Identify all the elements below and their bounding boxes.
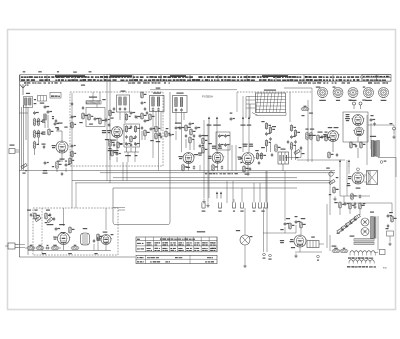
wire verticals under IF2 (153, 112, 161, 171)
capacitor C2 (44, 105, 50, 109)
wire vertical (227, 181, 233, 203)
capacitor C26 (218, 143, 224, 147)
wire (340, 160, 392, 212)
resistor R14 (125, 125, 131, 133)
capacitor C27 (224, 143, 229, 147)
wire (186, 139, 194, 150)
wire (333, 252, 378, 254)
labels mains (280, 240, 284, 243)
title FX355A (202, 94, 213, 98)
bus wire 1 (19, 170, 335, 172)
fuse box (380, 250, 386, 255)
wire (237, 92, 249, 152)
ballast dropper (370, 212, 376, 239)
resistor R3 (33, 130, 39, 139)
parts under UL41 (351, 193, 361, 201)
parts below B4 (212, 164, 223, 172)
ground (243, 264, 246, 268)
caps pair (175, 123, 185, 131)
wire (28, 245, 111, 251)
wire osc bottom (124, 147, 139, 152)
arrow into B5 (241, 158, 244, 164)
resistors right of B5 (256, 152, 266, 165)
capacitor C28 (271, 153, 273, 157)
capacitor C3 (47, 110, 52, 114)
labels (47, 224, 65, 225)
wire (128, 152, 135, 162)
wire (285, 148, 301, 158)
valve B9 triode (53, 233, 70, 245)
component frame (124, 124, 140, 147)
wire (176, 113, 184, 153)
wire (57, 168, 66, 172)
wire (45, 115, 48, 128)
resistor R11 (109, 139, 115, 148)
IF transformer S7 S8 (150, 93, 165, 112)
parts row (165, 128, 174, 138)
wire vertical x330 (327, 173, 330, 251)
trimmer C14 (135, 115, 141, 119)
tube base diagram 4 (364, 88, 374, 102)
labels left B7 (345, 114, 350, 121)
IF coil S3 (86, 97, 106, 105)
wire hline y90 (150, 88, 237, 90)
valve B2 UCH41 (107, 127, 124, 138)
junction (25, 170, 26, 171)
resistor R4 (37, 130, 42, 139)
jack 3 (232, 202, 235, 211)
trimmer C20 (134, 142, 140, 146)
wire grid cap (56, 131, 62, 141)
wire (292, 145, 296, 160)
aerial coil S1 (24, 93, 37, 108)
caps right (370, 115, 376, 126)
top parts (334, 201, 365, 210)
valve B8 UL41 (348, 172, 365, 184)
labels bottom box (42, 253, 98, 254)
top cap UL41 (357, 168, 360, 171)
wire (368, 125, 394, 127)
left frame wire (18, 75, 20, 257)
capacitor C24 (218, 134, 224, 138)
antenna (20, 84, 28, 95)
labels above B1 (55, 123, 67, 129)
wire (244, 208, 246, 235)
pickup connector (236, 230, 253, 245)
svg-text:FX355A: FX355A (202, 94, 213, 98)
bottom rail (19, 256, 135, 258)
below B1 parts (52, 161, 67, 177)
labels above B4 (212, 146, 222, 149)
wire (340, 166, 349, 196)
tube base diagram 3 (348, 88, 358, 102)
valve B7b (353, 127, 365, 136)
ground (202, 199, 205, 203)
oscillator coil S5 S6 (117, 91, 130, 113)
cluster mid (150, 132, 162, 142)
up arrow pair 2 (240, 116, 251, 125)
labels above B5 (239, 144, 259, 152)
terminal b (268, 254, 271, 260)
socket extra marks (316, 87, 365, 88)
switch box A (38, 96, 47, 104)
left parts S3 (79, 106, 87, 123)
valve B4 UAF42 (208, 152, 224, 163)
caps grid box (216, 132, 230, 150)
wire (282, 164, 284, 171)
frame under S3 (86, 108, 105, 127)
wire (234, 171, 266, 202)
resistor (97, 233, 103, 241)
dashed shield box (70, 92, 163, 166)
capacitor C4 (54, 122, 59, 126)
wire (209, 124, 217, 199)
switch box B (50, 93, 61, 99)
parts right of frame (109, 107, 115, 119)
loudspeaker (367, 171, 378, 185)
label 318 (81, 85, 85, 86)
capacitor C7 (65, 163, 70, 167)
capacitor C6 (52, 116, 57, 123)
jack 6 (258, 202, 261, 208)
wire verticals mid (228, 145, 236, 171)
wire (199, 165, 201, 171)
ground (206, 203, 209, 207)
upper left parts (27, 210, 41, 222)
label (43, 170, 47, 171)
wire (217, 163, 219, 171)
wire (35, 138, 39, 155)
dashed box gram (33, 208, 118, 255)
parts chain x267 (261, 121, 276, 148)
resistor R16 (130, 135, 136, 143)
label B2 (110, 140, 116, 141)
parts col x72 (71, 102, 77, 158)
wire (110, 147, 117, 162)
jack 4 (240, 202, 243, 211)
resistor R5 (33, 141, 39, 150)
upper small parts (301, 106, 313, 117)
capacitor (55, 227, 60, 231)
top cap b (359, 100, 366, 110)
valve B5 UBC41 (238, 153, 256, 165)
valve B10 triode (97, 235, 113, 245)
wire vertical x204 x208 (204, 120, 208, 203)
parts below B5 (243, 165, 251, 175)
pilot lamp 2 (361, 228, 369, 236)
left col parts (326, 168, 338, 201)
resistor R13 (125, 113, 130, 121)
wire (295, 244, 324, 252)
up arrows jacks (216, 191, 222, 198)
coil S2 (44, 114, 46, 120)
wire (246, 97, 250, 119)
parts x292 (287, 124, 300, 150)
resistor (69, 226, 75, 234)
wire verticals x308 x312 (308, 88, 312, 162)
wire (18, 245, 25, 248)
jack 1 (202, 202, 206, 211)
label bottom (22, 173, 47, 174)
capacitor C19 (130, 143, 132, 147)
capacitor C13 (130, 111, 136, 115)
terminal a (263, 253, 266, 259)
wire (340, 208, 360, 215)
wire (364, 175, 367, 182)
wire vertical (289, 92, 291, 122)
slant resistor R9 (21, 164, 27, 169)
capacitor C5 (57, 127, 59, 131)
wire (357, 137, 359, 158)
earth connector (9, 145, 19, 154)
wire (367, 115, 371, 165)
parts below B7 (350, 141, 366, 149)
resistor R1 (33, 118, 39, 127)
parts x316-328 (317, 132, 331, 142)
label B12 (291, 247, 295, 248)
wire out top (64, 208, 107, 230)
wire (247, 165, 249, 177)
resistor R18 (275, 144, 281, 153)
far right parts (390, 123, 396, 139)
capacitor (93, 239, 95, 243)
valve B7a (351, 115, 365, 126)
wire vertical x267 (264, 171, 286, 252)
small part right (380, 161, 386, 164)
wire (378, 158, 396, 178)
wire vertical (27, 168, 29, 255)
bus wire 5 (75, 182, 330, 184)
wire (285, 225, 301, 235)
wire (27, 107, 29, 255)
marks above band (23, 71, 92, 73)
capacitor C15 (130, 125, 132, 129)
resistor R6 (48, 128, 54, 136)
capacitor extra (43, 145, 45, 149)
capacitor C22 (193, 165, 195, 169)
dial resistor ladder (337, 214, 361, 233)
label B10 (103, 232, 114, 236)
wire (72, 93, 76, 208)
trimmer C18 (125, 142, 130, 146)
labels (125, 155, 137, 156)
dropper resistor (307, 237, 319, 248)
header parts-list band (20, 75, 391, 82)
ground (353, 205, 356, 209)
wave band switch SK1 (246, 90, 286, 116)
parts under IF2 (146, 111, 161, 136)
electrolytic block C29 C30 (278, 149, 289, 165)
capacitor C1 (33, 111, 39, 115)
plug P1 (5, 243, 18, 249)
wire (263, 232, 296, 234)
resistor R12 (117, 141, 123, 149)
bars (350, 236, 374, 245)
ground (294, 254, 297, 258)
capacitor C23 (230, 113, 235, 122)
IF transformer S9 S10 (173, 93, 188, 113)
cluster below B2 (105, 139, 123, 157)
left col IF2 (141, 91, 150, 137)
resistor R17 (182, 164, 188, 172)
feedback loop (113, 92, 170, 225)
tube base diagram 2 (333, 88, 343, 102)
wire (22, 105, 27, 171)
metal can (81, 228, 90, 245)
wire (61, 153, 63, 162)
wire (142, 131, 145, 140)
tube base diagram 1 (318, 88, 328, 102)
label B9 (61, 232, 66, 233)
label B1 (59, 159, 64, 160)
frame box EABC (343, 112, 368, 142)
parts above B12 (280, 216, 305, 230)
ground (388, 242, 391, 246)
capacitor C25 (224, 134, 230, 138)
parts (300, 146, 305, 154)
svg-text:B3D: B3D (383, 268, 387, 270)
bus wire 6 (113, 187, 297, 189)
label corner (383, 268, 387, 270)
notes table (136, 255, 217, 263)
wire (267, 142, 271, 152)
header sub-labels (24, 82, 388, 83)
resistor R2 (37, 118, 42, 127)
wire (93, 92, 100, 108)
voltage table (136, 237, 217, 252)
up arrow pair 1 (207, 116, 221, 125)
res row (332, 246, 349, 253)
heater chain (347, 251, 376, 268)
labels B8 (347, 183, 361, 189)
cluster x307-315 (305, 129, 315, 141)
resistor R7 (56, 161, 62, 170)
wire (94, 240, 106, 251)
labels above B6 (328, 127, 339, 128)
capacitor C16 (125, 135, 127, 139)
parts in frame (88, 113, 105, 125)
terminal c (317, 255, 320, 261)
wire row (25, 247, 61, 249)
resistor row (27, 245, 60, 250)
capacitor C8 (44, 161, 49, 165)
table title (197, 231, 205, 232)
resistor R15 (134, 125, 140, 133)
wire (19, 112, 28, 114)
parts left of B2 (102, 130, 106, 133)
bus wire 4 (72, 180, 330, 182)
slant resistor (294, 150, 300, 159)
jack 2 (218, 202, 221, 211)
inner parts (45, 210, 56, 224)
wire (377, 216, 379, 250)
tube base diagram 5 (379, 88, 389, 102)
inner dashed (41, 208, 43, 255)
resistor (71, 245, 80, 250)
output transformer S11 (370, 136, 379, 157)
wire (332, 142, 334, 153)
wire vertical (109, 74, 111, 183)
up arrows (339, 159, 350, 166)
wire (284, 87, 312, 89)
dashed line top right (237, 91, 312, 93)
wire right link (113, 208, 125, 211)
valve B1 UCH41 (52, 141, 70, 153)
wire (188, 164, 190, 171)
wire (297, 159, 345, 161)
bus wire 3 (113, 177, 297, 179)
wire vertical (106, 74, 108, 181)
capacitor C17 (134, 135, 136, 139)
valve B12 UY41 (290, 235, 308, 247)
top cap a (348, 100, 355, 110)
wire verticals x123 (123, 162, 127, 181)
capacitor C21 (195, 126, 201, 130)
labels res col (42, 120, 46, 145)
valve B6 UBC41 triode (323, 131, 339, 142)
labels row y173 (205, 173, 238, 174)
resistor R8 (69, 157, 74, 165)
parts below B6 (328, 151, 338, 159)
switch SK2 (385, 228, 393, 241)
capacitor C11 (108, 123, 110, 127)
capacitor C10 (105, 118, 110, 122)
wire (116, 138, 118, 151)
capacitor C12 (113, 143, 115, 147)
wire (120, 112, 125, 123)
left parts mid (198, 134, 212, 156)
right col parts (387, 212, 397, 228)
pilot lamp 1 (361, 218, 369, 226)
bus wire 2 (100, 172, 335, 174)
label B3 (186, 154, 198, 168)
jack 7 (261, 202, 267, 211)
parts under IF3 (185, 122, 196, 144)
jack 5 (252, 202, 255, 211)
comb foot (256, 113, 287, 116)
valve B3 UAF42 (178, 153, 195, 164)
wire (244, 245, 246, 264)
